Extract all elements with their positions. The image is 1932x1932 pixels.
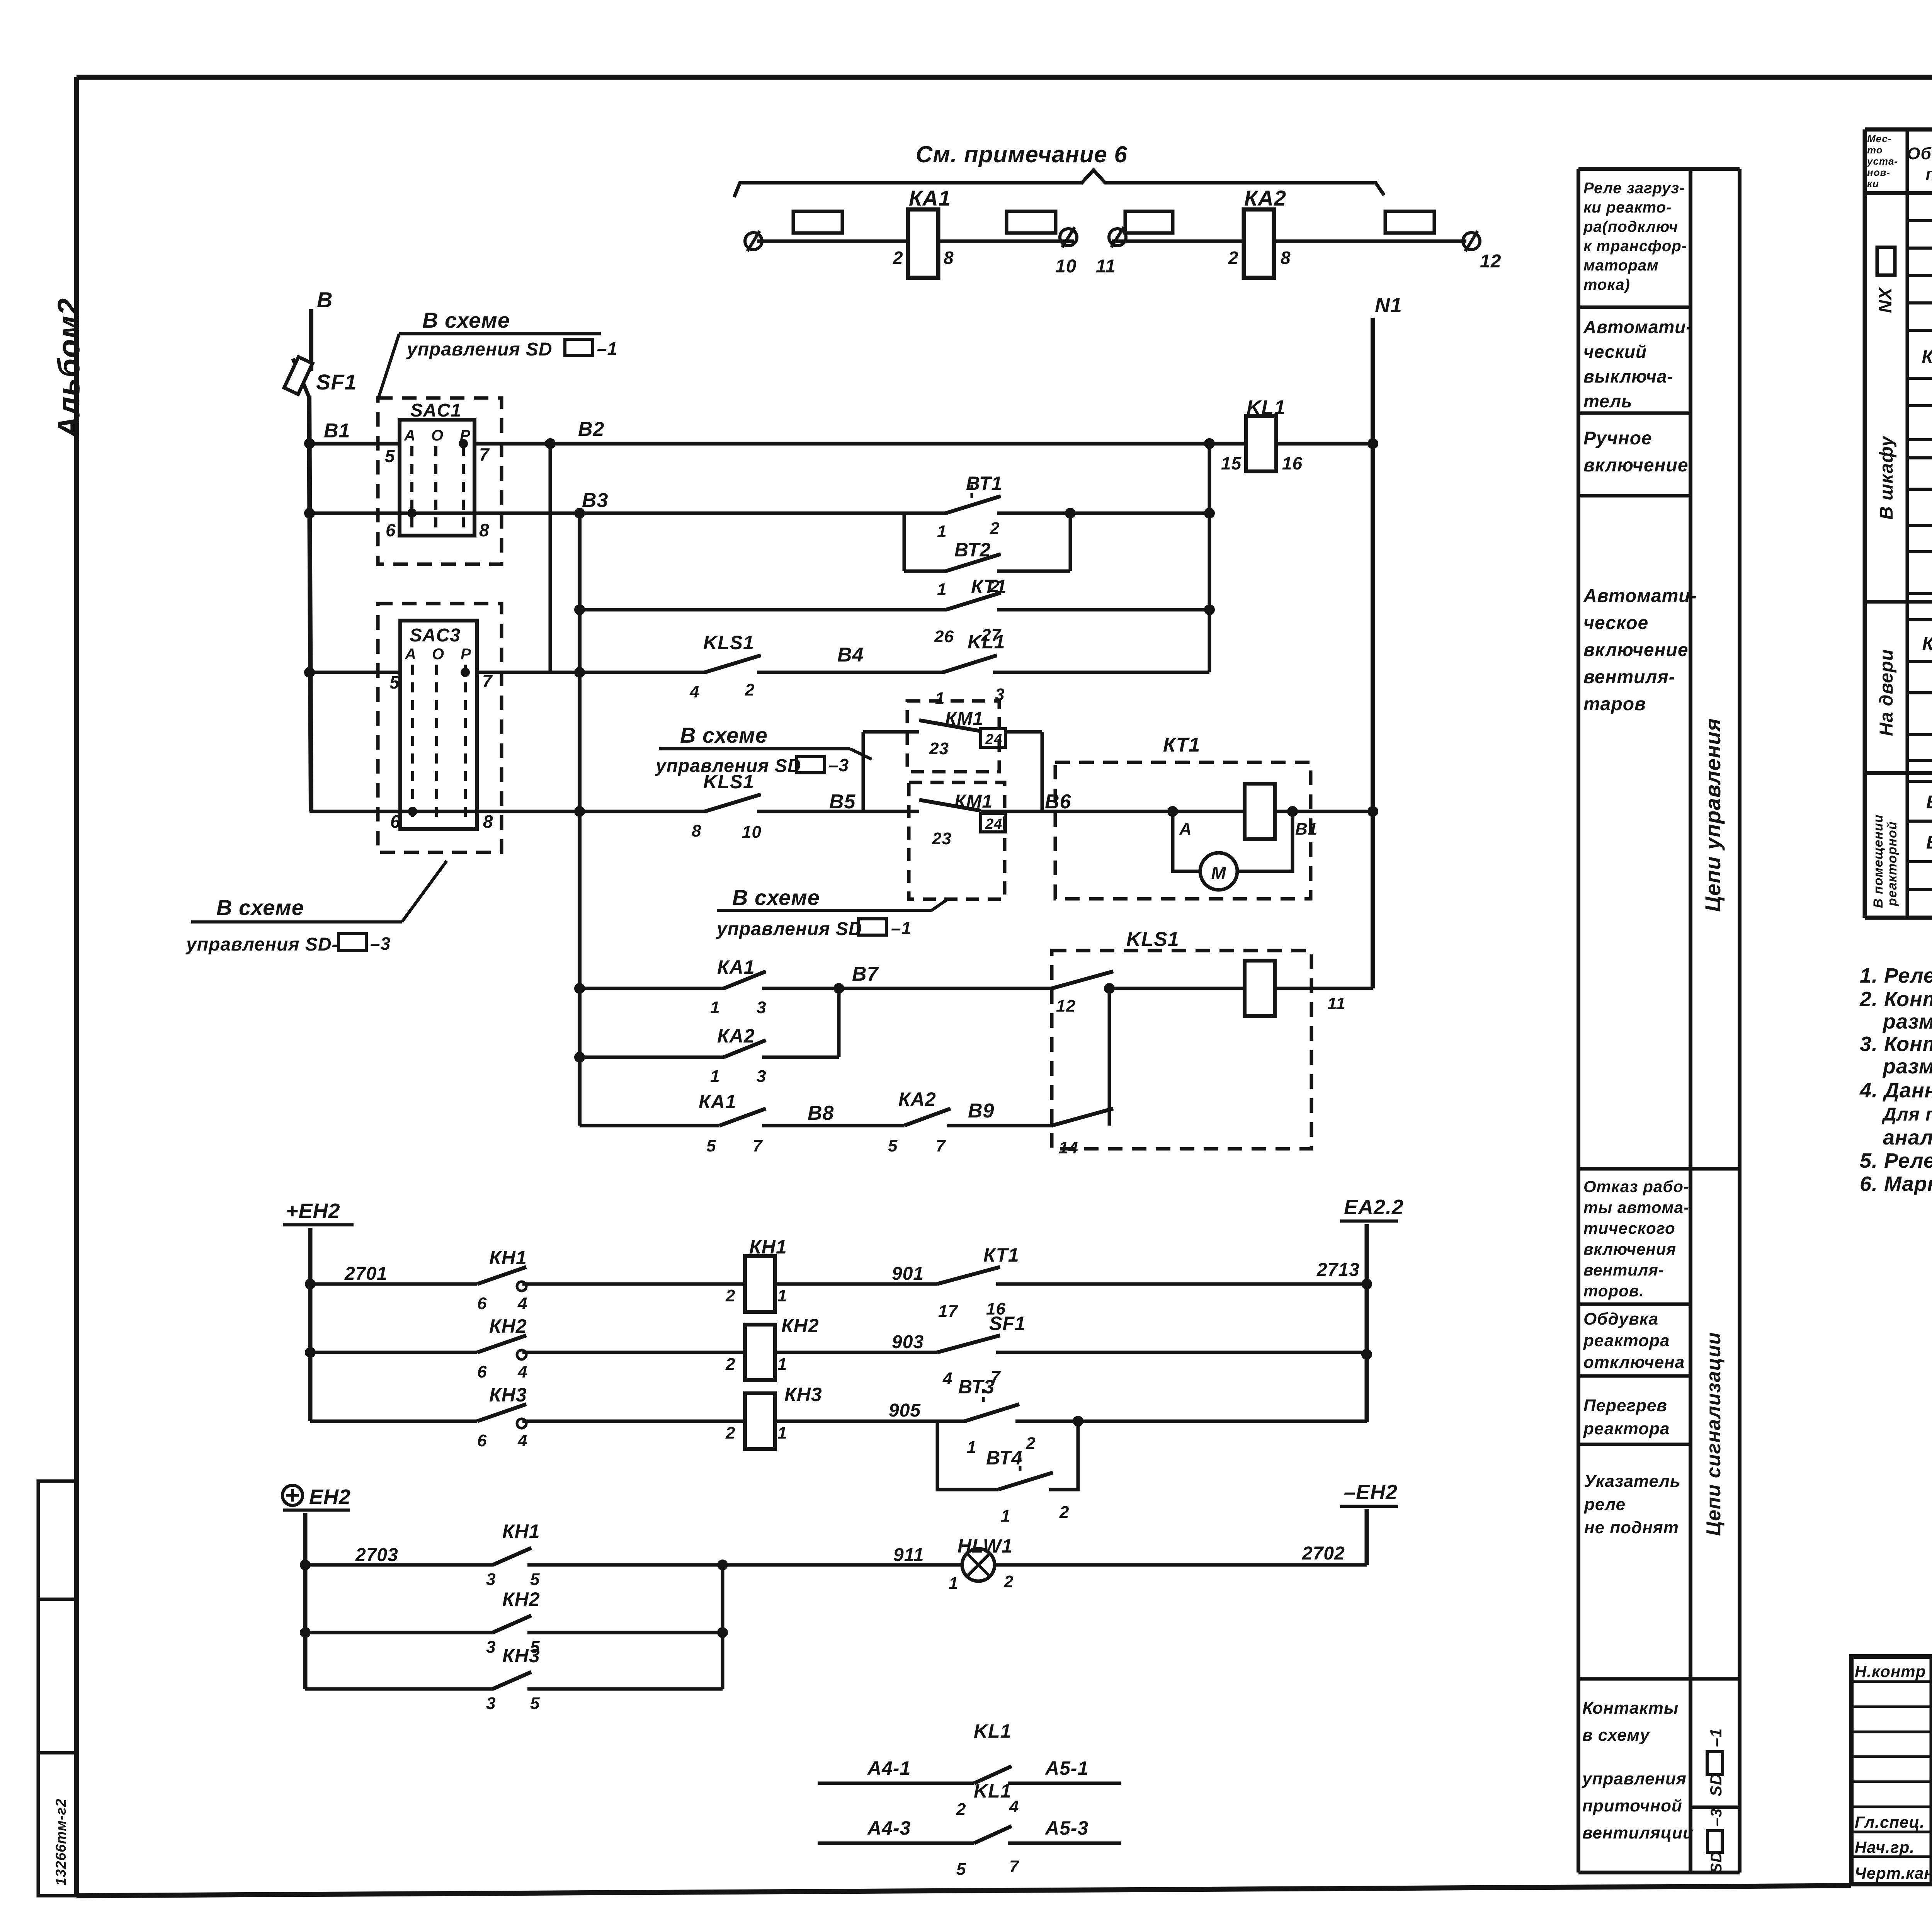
svg-text:ра(подключ: ра(подключ [1583,218,1678,235]
svg-text:KLS1: KLS1 [1126,928,1179,951]
svg-text:выключа-: выключа- [1583,366,1673,386]
svg-text:вентиля-: вентиля- [1583,667,1675,687]
svg-text:Н.контр: Н.контр [1855,1662,1926,1680]
svg-text:Автомати-: Автомати- [1583,317,1692,337]
svg-text:5: 5 [706,1136,716,1155]
svg-text:ВТ3: ВТ3 [958,1376,995,1398]
svg-text:2: 2 [956,1800,966,1819]
svg-text:Цепи сигнализации: Цепи сигнализации [1702,1332,1725,1536]
svg-text:KL1: KL1 [968,631,1005,653]
svg-text:ВТ1, ВТ2: ВТ1, ВТ2 [1926,792,1932,813]
svg-text:6: 6 [477,1362,487,1381]
svg-text:управления SD: управления SD [655,756,801,776]
svg-text:8: 8 [692,821,701,840]
svg-text:SD: SD [1707,1773,1725,1796]
svg-text:аналогична.: аналогична. [1883,1126,1932,1149]
svg-text:включение: включение [1583,455,1689,476]
svg-text:1: 1 [937,580,947,599]
svg-text:ЕН2: ЕН2 [309,1485,351,1509]
svg-text:В схеме: В схеме [680,723,768,747]
svg-text:1: 1 [710,998,720,1017]
svg-text:5: 5 [530,1694,540,1713]
svg-text:26: 26 [934,627,954,646]
svg-text:6: 6 [386,520,396,540]
svg-text:ЕА2.2: ЕА2.2 [1344,1196,1404,1219]
svg-text:KL1: KL1 [1247,396,1286,419]
svg-text:1: 1 [777,1286,787,1305]
svg-text:ки реакто-: ки реакто- [1583,199,1672,216]
svg-text:2. Контакты датчика ВТ1,2 д: 2. Контакты датчика ВТ1,2 должны замыкат… [1859,988,1932,1011]
svg-text:В7: В7 [852,963,879,985]
svg-text:5: 5 [385,446,395,466]
svg-text:В схеме: В схеме [216,895,304,920]
svg-text:М: М [1211,863,1226,883]
svg-text:5: 5 [530,1570,540,1589]
svg-text:А5-1: А5-1 [1044,1757,1088,1779]
svg-text:23: 23 [929,739,949,758]
svg-text:КА2: КА2 [1244,186,1286,210]
svg-text:7: 7 [479,444,490,464]
svg-text:управления: управления [1582,1769,1687,1788]
svg-text:2: 2 [725,1355,735,1374]
svg-text:SAC1: SAC1 [410,400,461,421]
svg-text:ВТ1: ВТ1 [966,473,1002,494]
svg-text:включения: включения [1583,1240,1676,1258]
svg-text:N1: N1 [1375,294,1402,317]
svg-text:11: 11 [1096,256,1116,277]
svg-text:–3: –3 [370,934,391,954]
svg-text:8: 8 [944,248,954,268]
svg-text:–3: –3 [828,755,849,775]
svg-text:тического: тического [1583,1219,1675,1237]
svg-text:О: О [431,427,444,444]
svg-text:не поднят: не поднят [1584,1518,1679,1537]
svg-text:отключена: отключена [1583,1353,1685,1372]
svg-text:SF1: SF1 [316,370,357,394]
svg-text:то: то [1867,144,1883,156]
svg-text:реле: реле [1584,1495,1626,1514]
svg-text:А: А [405,646,417,663]
svg-text:6: 6 [477,1294,487,1313]
svg-text:7: 7 [936,1136,946,1155]
svg-text:2702: 2702 [1302,1543,1345,1564]
svg-text:КА1 ; КА2: КА1 ; КА2 [1922,347,1932,367]
svg-text:КН3: КН3 [784,1384,822,1405]
svg-text:по схеме: по схеме [1926,165,1932,184]
svg-text:10: 10 [1055,256,1077,277]
svg-text:реакторной: реакторной [1885,821,1900,906]
svg-text:8: 8 [1281,248,1291,268]
svg-text:В шкафу: В шкафу [1876,435,1897,520]
svg-text:реактора: реактора [1583,1419,1670,1438]
svg-text:КА1: КА1 [699,1091,736,1112]
svg-text:–3: –3 [1708,1808,1725,1827]
svg-text:4: 4 [517,1294,527,1313]
svg-text:KL1: KL1 [974,1720,1011,1742]
svg-text:КН2: КН2 [502,1588,540,1610]
svg-text:Гл.спец.: Гл.спец. [1855,1813,1925,1831]
svg-text:4: 4 [689,682,699,701]
svg-text:911: 911 [893,1545,924,1565]
svg-text:А4-1: А4-1 [867,1757,911,1779]
svg-text:Реле загруз-: Реле загруз- [1583,180,1685,197]
svg-text:2701: 2701 [344,1264,388,1284]
svg-text:КТ1: КТ1 [1163,734,1200,756]
svg-text:Для приточных вентиляций: Для приточных вентиляций [1881,1104,1932,1125]
svg-text:В1: В1 [324,420,350,442]
svg-text:23: 23 [932,829,952,848]
svg-text:КТ1: КТ1 [983,1244,1019,1266]
svg-text:В схеме: В схеме [422,308,510,332]
svg-text:таров: таров [1583,694,1646,714]
svg-text:1: 1 [935,689,945,708]
svg-text:SD: SD [1708,1851,1725,1873]
svg-text:13266тм-г2: 13266тм-г2 [53,1799,69,1886]
svg-text:реактора: реактора [1583,1331,1670,1350]
svg-text:ческое: ческое [1583,613,1648,633]
svg-text:15: 15 [1221,453,1242,473]
svg-text:Отказ рабо-: Отказ рабо- [1583,1177,1689,1196]
svg-text:управления SD-: управления SD- [185,934,338,955]
svg-text:3: 3 [757,998,766,1017]
svg-text:4: 4 [517,1431,527,1450]
svg-text:На двери: На двери [1876,649,1897,736]
svg-text:2703: 2703 [355,1545,398,1565]
svg-text:КН2: КН2 [781,1315,819,1337]
svg-text:В схеме: В схеме [732,885,820,910]
svg-text:2: 2 [990,519,1000,538]
svg-text:KL1: KL1 [974,1780,1011,1802]
svg-text:КТ1: КТ1 [971,576,1007,597]
svg-text:24: 24 [985,816,1002,832]
svg-text:КА1: КА1 [717,956,755,978]
svg-text:А: А [1179,820,1192,838]
svg-text:Указатель: Указатель [1584,1472,1680,1491]
svg-text:3: 3 [486,1570,496,1589]
svg-text:5: 5 [888,1136,898,1155]
svg-text:ки: ки [1867,178,1879,189]
svg-text:SAC3: SAC3 [410,625,461,646]
svg-text:КМ1: КМ1 [954,791,993,812]
svg-text:2: 2 [1059,1503,1069,1522]
svg-text:КА1: КА1 [909,186,951,210]
svg-text:12: 12 [1056,997,1076,1015]
svg-text:3. Контакты датчиков ВТ3,4 д: 3. Контакты датчиков ВТ3,4 должны замыка… [1860,1032,1932,1056]
svg-text:к трансфор-: к трансфор- [1583,238,1687,255]
svg-text:7: 7 [482,671,493,691]
svg-text:7: 7 [753,1136,763,1155]
svg-text:Перегрев: Перегрев [1583,1396,1667,1415]
svg-text:маторам: маторам [1583,257,1659,274]
svg-text:Обозначение: Обозначение [1907,144,1932,163]
svg-text:17: 17 [938,1302,958,1321]
svg-text:КН1: КН1 [489,1247,527,1269]
svg-text:А4-3: А4-3 [867,1817,911,1839]
svg-text:нов-: нов- [1867,167,1890,178]
svg-text:ты автома-: ты автома- [1583,1198,1689,1216]
svg-text:Автомати-: Автомати- [1583,586,1697,606]
svg-text:В6: В6 [1045,791,1071,813]
svg-text:905: 905 [889,1400,921,1421]
svg-text:включение: включение [1583,640,1689,660]
svg-text:В9: В9 [968,1100,994,1122]
svg-text:–1: –1 [891,918,912,938]
svg-text:в схему: в схему [1582,1726,1650,1745]
svg-text:В8: В8 [808,1102,834,1124]
svg-text:16: 16 [1282,453,1303,473]
svg-text:1: 1 [1001,1507,1010,1526]
svg-text:–1: –1 [597,338,617,359]
svg-text:10: 10 [742,823,762,842]
svg-text:11: 11 [1327,994,1346,1013]
svg-text:6. Марки цепей проставляютс: 6. Марки цепей проставляются при привязк… [1860,1172,1932,1196]
svg-text:4. Данная схема выполнена: 4. Данная схема выполнена для приточных … [1859,1079,1932,1102]
svg-text:2: 2 [1228,248,1239,268]
svg-text:КА2: КА2 [898,1088,936,1110]
svg-text:КМ1: КМ1 [945,709,983,729]
svg-text:тока): тока) [1583,276,1630,293]
svg-text:6: 6 [477,1431,487,1450]
svg-text:ВТ3, ВТ4: ВТ3, ВТ4 [1926,832,1932,853]
svg-text:ВТ4: ВТ4 [986,1447,1022,1469]
svg-text:КН3: КН3 [502,1645,540,1667]
svg-text:2: 2 [1026,1434,1036,1453]
svg-text:уста-: уста- [1866,155,1898,167]
svg-text:См. примечание 6: См. примечание 6 [916,141,1128,167]
svg-text:КА2: КА2 [717,1025,755,1047]
svg-text:2: 2 [725,1423,735,1442]
svg-text:ВТ2: ВТ2 [954,539,991,561]
svg-text:В2: В2 [578,418,604,440]
svg-text:В1: В1 [1295,820,1318,838]
svg-text:КН1...КН3: КН1...КН3 [1922,634,1932,654]
svg-text:3: 3 [486,1638,496,1656]
svg-text:8: 8 [479,520,490,540]
svg-text:2: 2 [745,680,755,699]
svg-text:7: 7 [1009,1857,1020,1876]
svg-text:Контакты: Контакты [1582,1699,1679,1718]
svg-text:5. Реле тока КНС используютс: 5. Реле тока КНС используются только для… [1860,1149,1932,1172]
svg-text:Обдувка: Обдувка [1583,1310,1658,1328]
svg-text:+ЕН2: +ЕН2 [286,1199,340,1223]
svg-text:В5: В5 [829,791,856,813]
svg-text:2: 2 [1003,1572,1014,1591]
svg-text:5: 5 [956,1860,966,1879]
svg-text:HLW1: HLW1 [957,1535,1013,1557]
svg-text:8: 8 [483,811,493,832]
svg-text:–1: –1 [1707,1728,1725,1747]
svg-text:Р: Р [461,646,471,663]
svg-text:управления SD: управления SD [716,919,862,939]
svg-text:В: В [317,287,333,312]
svg-text:приточной: приточной [1582,1796,1682,1815]
svg-text:2713: 2713 [1316,1260,1360,1280]
svg-text:NX: NX [1875,287,1895,313]
svg-text:тель: тель [1583,391,1632,411]
svg-text:KLS1: KLS1 [703,632,754,653]
svg-text:6: 6 [390,811,401,832]
svg-text:размыкаться при t°=+40°С.: размыкаться при t°=+40°С. [1882,1055,1932,1078]
svg-text:903: 903 [892,1332,924,1352]
svg-text:КН3: КН3 [489,1384,527,1406]
svg-text:1. Реле тока КА1, КА2 настр: 1. Реле тока КА1, КА2 настраиваются на 0… [1860,964,1932,987]
svg-text:Ручное: Ручное [1583,428,1652,449]
svg-text:В помещении: В помещении [1871,814,1886,908]
svg-text:4: 4 [517,1362,527,1381]
svg-text:1: 1 [949,1574,958,1593]
svg-text:2: 2 [725,1286,735,1305]
svg-text:SF1: SF1 [989,1313,1026,1334]
svg-text:901: 901 [892,1264,924,1284]
svg-text:1: 1 [967,1438,976,1457]
svg-text:торов.: торов. [1583,1282,1644,1300]
svg-text:12: 12 [1480,251,1501,272]
svg-text:КН2: КН2 [489,1315,527,1337]
svg-text:ческий: ческий [1583,342,1647,362]
svg-text:вентиляции: вентиляции [1582,1823,1694,1842]
svg-text:Нач.гр.: Нач.гр. [1855,1838,1915,1856]
svg-text:А5-3: А5-3 [1044,1817,1088,1839]
svg-text:1: 1 [777,1423,787,1442]
svg-text:Черт.кан: Черт.кан [1855,1864,1932,1882]
svg-text:Мес-: Мес- [1867,133,1892,145]
svg-text:Цепи управления: Цепи управления [1701,718,1725,912]
svg-text:В3: В3 [582,489,608,512]
svg-text:вентиля-: вентиля- [1583,1261,1664,1279]
svg-text:1: 1 [777,1355,787,1374]
svg-text:КН1: КН1 [502,1520,540,1542]
svg-text:2: 2 [893,248,903,268]
svg-text:КН1: КН1 [749,1236,787,1258]
svg-text:3: 3 [486,1694,496,1713]
svg-text:управления SD: управления SD [406,339,553,360]
svg-text:–ЕН2: –ЕН2 [1344,1481,1398,1504]
svg-text:1: 1 [710,1067,720,1086]
svg-text:В4: В4 [837,644,864,666]
svg-text:1: 1 [937,522,947,541]
svg-text:Альбом2: Альбом2 [51,298,86,439]
svg-text:4: 4 [942,1369,952,1388]
svg-text:3: 3 [757,1067,766,1086]
svg-text:О: О [432,646,444,663]
svg-text:А: А [404,427,416,444]
svg-text:5: 5 [389,672,400,692]
svg-text:размыкаться при t°=+30°С.: размыкаться при t°=+30°С. [1882,1010,1932,1033]
